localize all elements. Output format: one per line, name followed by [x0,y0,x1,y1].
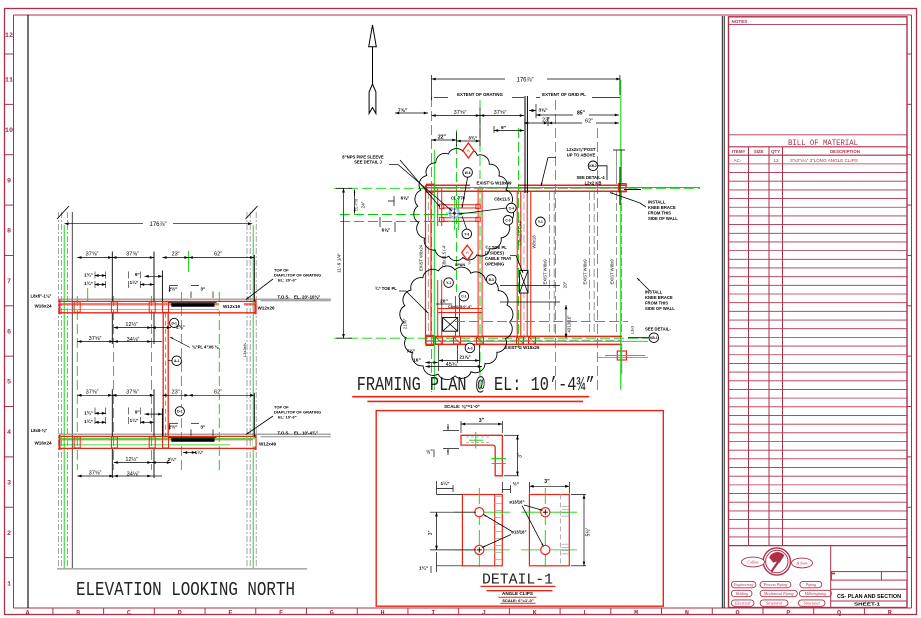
svg-text:INSTALL: INSTALL [645,290,663,295]
svg-text:FROM THIS: FROM THIS [645,301,668,306]
svg-text:1¼”: 1¼” [130,279,139,285]
svg-text:1¼”: 1¼” [130,417,139,423]
svg-text:N: N [685,609,689,617]
svg-text:Welding: Welding [735,592,748,596]
svg-text:23”: 23” [542,118,550,124]
svg-text:C8x11.5: C8x11.5 [494,197,510,202]
svg-text:FROM THIS: FROM THIS [648,211,671,216]
svg-text:SEE DETAIL-: SEE DETAIL- [645,327,671,332]
svg-text:37⅝”: 37⅝” [126,252,139,258]
svg-text:UP TO ABOVE: UP TO ABOVE [567,153,596,158]
svg-text:9”: 9” [135,410,140,415]
svg-text:E: E [228,609,232,617]
svg-text:8: 8 [7,228,11,236]
svg-text:½”: ½” [513,480,520,487]
svg-text:4: 4 [7,429,11,437]
svg-text:1¾”: 1¾” [84,410,93,416]
svg-text:C-3: C-3 [505,219,510,223]
svg-text:L2x2x⅜”POST: L2x2x⅜”POST [567,147,596,152]
svg-text:A: A [467,148,470,153]
svg-text:37⅝”: 37⅝” [86,252,99,258]
svg-text:Structural: Structural [766,602,782,606]
svg-text:6⅝”: 6⅝” [382,228,391,233]
svg-text:KNEE BRACE: KNEE BRACE [645,295,673,300]
svg-text:A-1: A-1 [174,359,180,363]
svg-text:3”: 3” [200,287,206,293]
svg-text:45¾”: 45¾” [446,362,459,368]
svg-text:1¼”: 1¼” [440,480,450,487]
svg-text:T.O.S.: T.O.S. [278,431,290,436]
svg-text:37⅝”: 37⅝” [89,336,102,342]
svg-text:23”: 23” [171,252,179,258]
svg-text:Y-1: Y-1 [446,281,451,285]
svg-text:Y-1: Y-1 [538,220,543,224]
svg-text:3: 3 [7,479,11,487]
svg-text:EL: 20’-6”: EL: 20’-6” [278,278,297,283]
svg-text:EXIST’G W18x26: EXIST’G W18x26 [505,345,540,350]
svg-text:T.O.S.: T.O.S. [278,295,290,300]
svg-text:Structural: Structural [804,602,820,606]
svg-text:EXTENT OF GRID PL: EXTENT OF GRID PL [542,92,586,97]
svg-text:D: D [178,609,182,617]
svg-text:21⅜”: 21⅜” [403,318,408,329]
svg-text:SIDE OF WALL: SIDE OF WALL [645,306,675,311]
svg-text:J: J [482,609,486,617]
svg-text:CABLE TRAY: CABLE TRAY [485,256,512,261]
svg-text:16”: 16” [413,358,421,364]
svg-text:W12x19: W12x19 [223,304,241,309]
svg-text:W12x26: W12x26 [257,306,275,311]
svg-text:OPENING: OPENING [485,262,504,267]
svg-text:A-3: A-3 [467,346,472,350]
svg-text:3”: 3” [428,530,434,535]
svg-text:3”: 3” [200,424,206,430]
svg-text:KB-1: KB-1 [650,336,658,340]
svg-text:C: C [127,609,131,617]
svg-text:22”: 22” [438,135,447,141]
svg-text:L: L [583,609,587,617]
svg-text:FRAMING PLAN @ EL: 10’-4¾”: FRAMING PLAN @ EL: 10’-4¾” [357,374,595,396]
svg-text:DESCRIPTION: DESCRIPTION [830,149,860,154]
svg-text:C8x11.5-0’-4”: C8x11.5-0’-4” [448,305,472,309]
svg-text:Electrical: Electrical [734,602,750,606]
svg-text:ITEM#: ITEM# [732,149,745,154]
svg-text:EL. 10’-4¾”: EL. 10’-4¾” [294,431,318,436]
svg-text:9”: 9” [135,272,140,277]
svg-text:62”: 62” [214,252,222,258]
svg-text:9”: 9” [501,125,507,131]
svg-text:20”: 20” [563,281,568,288]
svg-text:SIDE OF WALL: SIDE OF WALL [648,216,678,221]
svg-text:CS- PLAN AND SECTION: CS- PLAN AND SECTION [837,594,901,600]
svg-text:85”: 85” [577,111,586,117]
svg-text:W16x24: W16x24 [34,304,52,309]
svg-text:H: H [380,609,384,617]
svg-text:21⅝”: 21⅝” [459,355,470,360]
svg-text:W8x18: W8x18 [532,235,537,249]
svg-text:Millwrighting: Millwrighting [804,592,827,596]
svg-text:62”: 62” [214,389,222,395]
svg-text:Process Piping: Process Piping [763,583,788,587]
svg-text:ANGLE CLIPS: ANGLE CLIPS [502,591,533,596]
svg-text:Engineering: Engineering [733,583,753,587]
svg-text:37⅝”: 37⅝” [494,110,507,116]
svg-text:37⅝”: 37⅝” [454,110,467,116]
svg-text:10: 10 [5,127,13,135]
svg-text:EXIST WI8x9: EXIST WI8x9 [610,259,615,285]
svg-text:W-6: W-6 [465,171,471,175]
svg-text:¾” TOE PL: ¾” TOE PL [485,245,507,250]
svg-text:½”: ½” [426,449,433,456]
svg-text:F: F [279,609,283,617]
svg-text:EXIST WI8x9: EXIST WI8x9 [583,259,588,285]
svg-text:62”: 62” [585,119,593,125]
svg-text:B-3: B-3 [489,278,494,282]
svg-text:CL-770: CL-770 [355,199,359,211]
svg-text:34⅛”: 34⅛” [127,337,140,343]
svg-text:5½”: 5½” [585,527,592,536]
svg-text:2: 2 [7,530,11,538]
svg-text:KNEE BRACE: KNEE BRACE [648,205,676,210]
svg-text:W12x49: W12x49 [259,442,277,447]
svg-text:5: 5 [7,379,11,387]
svg-text:37⅝”: 37⅝” [89,471,102,477]
svg-text:I: I [431,609,435,617]
svg-text:A: A [466,250,469,255]
svg-text:37⅝”: 37⅝” [86,389,99,395]
svg-text:3¾”: 3¾” [468,135,478,142]
svg-text:SPAN: SPAN [455,263,466,267]
svg-text:3”: 3” [479,418,485,424]
svg-text:Q: Q [837,609,841,617]
svg-text:SEE DETAIL J: SEE DETAIL J [354,160,382,165]
svg-text:34⅛”: 34⅛” [127,472,140,478]
svg-text:AC-: AC- [734,158,742,163]
svg-text:7⅝”: 7⅝” [398,108,408,114]
svg-text:43​13/16”: 43​13/16” [567,315,572,333]
svg-text:24”: 24” [361,201,367,208]
svg-text:O: O [736,609,740,617]
svg-text:G: G [330,609,334,617]
svg-text:3”: 3” [518,453,524,458]
svg-text:EXIST W8x24: EXIST W8x24 [419,244,424,271]
svg-text:INSTALL: INSTALL [648,200,666,205]
svg-text:EXTENT OF GRATING: EXTENT OF GRATING [457,92,503,97]
svg-text:11’-9 1/4”: 11’-9 1/4” [337,253,343,273]
svg-text:D-1: D-1 [177,410,183,414]
svg-text:1: 1 [7,580,11,588]
svg-text:C8x11.5 CAP: C8x11.5 CAP [518,220,523,245]
svg-text:KB-2: KB-2 [589,164,597,168]
svg-text:ELEVATION LOOKING NORTH: ELEVATION LOOKING NORTH [76,579,295,601]
svg-text:3”x3”x¼” 3”LONG ANGLE CLIPS: 3”x3”x¼” 3”LONG ANGLE CLIPS [790,158,858,163]
svg-text:12½”: 12½” [125,321,138,328]
svg-text:1¼”: 1¼” [195,449,204,455]
svg-text:SCALE: 6”=1’-0”: SCALE: 6”=1’-0” [502,598,533,603]
svg-text:B: B [76,609,80,617]
svg-text:3”: 3” [544,479,550,485]
svg-text:C8x11.5 (-4’: C8x11.5 (-4’ [442,245,447,268]
svg-text:¾” TOE PL: ¾” TOE PL [375,286,397,291]
svg-text:1¼”: 1¼” [419,564,429,571]
svg-text:6⅝”: 6⅝” [401,196,410,201]
svg-text:11: 11 [5,77,13,85]
svg-text:1¾”: 1¾” [84,418,93,424]
svg-text:NOTES: NOTES [732,19,748,24]
svg-text:M: M [634,609,638,617]
svg-text:C-1: C-1 [461,295,466,299]
svg-text:QTY: QTY [771,149,780,154]
svg-text:⅜”PL 4”X6 ⅜: ⅜”PL 4”X6 ⅜ [192,345,219,350]
svg-text:SIZE: SIZE [754,149,764,154]
svg-text:SEE DETAIL-4: SEE DETAIL-4 [576,175,605,180]
svg-text:2¼”: 2¼” [167,456,177,463]
svg-text:176⅞”: 176⅞” [149,222,166,228]
svg-text:23”: 23” [171,389,179,395]
svg-text:Piping: Piping [805,583,816,587]
svg-text:20”: 20” [440,298,448,304]
svg-text:37⅝”: 37⅝” [126,389,139,395]
svg-text:EL. 20’-10⅜”: EL. 20’-10⅜” [294,295,320,300]
svg-text:ø13/16”: ø13/16” [509,500,524,505]
svg-text:ø13/16”: ø13/16” [511,530,526,535]
svg-text:12½”: 12½” [125,456,138,463]
svg-text:L2x2 KB: L2x2 KB [585,180,602,185]
svg-text:SCALE: ⅜”=1’-0”: SCALE: ⅜”=1’-0” [444,404,480,409]
svg-text:6: 6 [7,328,11,336]
svg-text:2¾”: 2¾” [176,324,185,330]
svg-text:L8x8-⅜”: L8x8-⅜” [31,428,48,433]
svg-text:SHEET-1: SHEET-1 [854,602,881,607]
svg-text:EL: 10’-6”: EL: 10’-6” [278,415,297,420]
svg-text:7: 7 [7,278,11,286]
svg-text:C-4: C-4 [509,206,514,210]
svg-text:12: 12 [773,158,779,163]
svg-text:P: P [786,609,790,617]
svg-text:W16x24: W16x24 [34,441,52,446]
svg-text:& Sons: & Sons [796,562,808,566]
svg-text:3⅝”: 3⅝” [538,108,548,114]
svg-text:1¾”: 1¾” [84,280,93,286]
svg-text:EXIST WI8x9: EXIST WI8x9 [543,259,548,285]
svg-text:176⅞”: 176⅞” [516,78,533,84]
svg-text:9: 9 [7,177,11,185]
svg-text:L3x3: L3x3 [631,326,635,334]
svg-text:7⅝”: 7⅝” [407,349,416,354]
svg-text:(3 SIDES): (3 SIDES) [485,251,504,256]
svg-text:12: 12 [5,32,13,40]
svg-text:L8x8”-1⅛”: L8x8”-1⅛” [31,294,52,299]
svg-text:Collins: Collins [747,561,759,565]
svg-text:1¾”: 1¾” [84,272,93,278]
svg-text:Mechanical Piping: Mechanical Piping [763,592,794,596]
svg-text:L3x3x⅜: L3x3x⅜ [242,342,247,357]
svg-text:Y-3: Y-3 [464,232,469,236]
